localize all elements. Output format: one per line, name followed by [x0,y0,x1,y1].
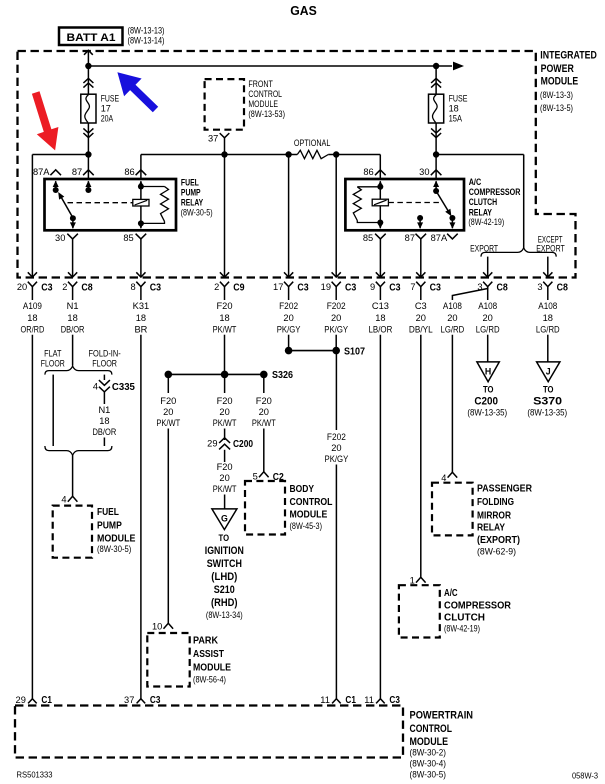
svg-text:(8W-30-4): (8W-30-4) [410,758,447,768]
wire S107 to PCM C1 with label [325,351,349,699]
svg-text:F20: F20 [160,396,176,406]
BATT A1 reference labels [128,26,165,46]
svg-text:(8W-13-35): (8W-13-35) [527,407,567,417]
coil K2 [372,199,388,225]
wire K31 to PCM C3 [140,335,142,699]
svg-text:20: 20 [163,407,173,417]
svg-text:18: 18 [449,103,459,113]
off-page reference G (to ignition switch) [212,509,237,530]
svg-text:(8W-13-13): (8W-13-13) [128,26,165,36]
pin 1 label A/C clutch [410,575,415,585]
pin 5 fork BCM [259,472,269,477]
svg-text:BATT A1: BATT A1 [67,32,117,44]
resistor R2 in K1 [141,187,169,224]
connector C8 pin 3 at IPM edge x=547.8 [537,272,568,293]
module U6 PASSENGER FOLDING MIRROR RELAY (dashed box) [432,483,473,536]
splice S107 [285,347,340,355]
svg-text:CLUTCH: CLUTCH [444,612,485,623]
svg-text:29: 29 [207,438,217,448]
svg-text:(8W-13-5): (8W-13-5) [540,103,573,113]
svg-text:F20: F20 [256,396,272,406]
svg-text:FLAT: FLAT [44,349,62,359]
svg-text:85: 85 [123,233,133,243]
wire A108 to off-page J [547,335,549,362]
wire K2 pin 87 to C3 [420,239,422,277]
svg-text:PK/GY: PK/GY [277,325,301,335]
svg-text:18: 18 [136,313,146,323]
svg-text:(8W-30-5): (8W-30-5) [181,208,213,218]
svg-text:20: 20 [331,313,341,323]
svg-text:(EXPORT): (EXPORT) [477,535,520,546]
connector C3 pin 37 at PCM [124,695,161,706]
svg-text:PK/WT: PK/WT [213,418,237,428]
resistor R1 OPTIONAL [297,150,328,158]
wire A108 to off-page H [487,335,489,362]
svg-text:C3: C3 [430,283,441,294]
wire A108 jog to mirror-relay column [441,287,488,335]
svg-text:TO: TO [219,532,230,543]
svg-text:PK/WT: PK/WT [213,484,237,494]
pin 85 fork K2 [375,234,386,239]
svg-text:F202: F202 [279,301,298,311]
svg-text:S370: S370 [533,396,562,408]
svg-text:CONTROL: CONTROL [410,723,453,735]
wire control rail (relay 86 pins / FCM / optional) [141,155,380,180]
svg-text:C200: C200 [474,396,498,408]
svg-text:(8W-42-19): (8W-42-19) [444,623,480,633]
svg-text:A109: A109 [23,301,42,311]
pin 86 internal stub K2 [377,181,383,200]
wire battery B+ into IPM [87,50,89,154]
svg-text:FOLD-IN-: FOLD-IN- [89,349,121,359]
wire C3 DB/YL to A/C compressor clutch [420,335,422,578]
footer page number 058W-3 [572,771,598,781]
svg-text:MODULE: MODULE [97,534,136,545]
svg-text:LG/RD: LG/RD [441,325,465,335]
svg-text:S210: S210 [214,584,235,596]
svg-text:MODULE: MODULE [193,662,231,673]
INTEGRATED POWER MODULE labels [540,50,597,113]
connector C2 label [273,472,284,483]
pin 86 connector chevron K2 [375,170,386,175]
svg-text:C3: C3 [345,283,356,294]
svg-text:COMPRESSOR: COMPRESSOR [444,600,511,611]
node junction control rail at FCM pin 37 [221,151,227,157]
coil link dashed K2 [388,202,441,204]
svg-text:20: 20 [331,443,341,453]
svg-text:A/C: A/C [444,588,458,599]
wire A108 J stub and label [536,287,560,335]
connector C1 pin 11 at PCM [320,695,356,706]
wire F202 right drop to C3 [335,155,337,278]
relay K1 name labels [181,178,213,218]
svg-text:20: 20 [283,313,293,323]
wire B+ bus [88,62,464,71]
wire A109 stub and label [21,287,45,335]
svg-text:4: 4 [441,473,446,483]
module U7 POWERTRAIN CONTROL MODULE (dashed box) [15,706,403,758]
svg-text:(8W-30-2): (8W-30-2) [410,747,447,757]
label FOLD-IN-FLOOR [89,349,121,369]
pin 87A label K2 [431,233,448,243]
svg-text:N1: N1 [98,405,110,415]
coil link dashed K1 [68,202,133,204]
pin 4 label mirror relay [441,473,446,483]
svg-text:FUSE: FUSE [101,94,119,104]
wire F202 right to splice S107 [335,335,337,351]
svg-text:DB/YL: DB/YL [409,325,433,335]
pin 10 fork park assist [164,623,174,628]
relay K2 A/C COMPRESSOR CLUTCH RELAY box [345,179,464,230]
svg-text:C3: C3 [389,283,400,294]
pin 86 label K1 [124,167,134,177]
svg-text:C8: C8 [557,283,568,294]
svg-text:C3: C3 [41,283,52,294]
splice S326 [165,371,268,379]
svg-text:(8W-13-34): (8W-13-34) [206,610,243,620]
svg-text:20A: 20A [101,114,114,124]
wire fuse 18 output to A/C relay pin 30 and export feed [436,155,524,249]
brace floor merge [45,446,112,455]
pin 4 label fuel pump module [61,494,66,504]
module U2 FRONT CONTROL MODULE (dashed box) [205,79,244,130]
wire fold-in-floor branch with N1 label [93,392,117,446]
svg-text:11: 11 [364,695,374,705]
svg-text:PASSENGER: PASSENGER [477,484,532,495]
wire A108 to passenger folding mirror relay [451,335,453,473]
svg-text:F202: F202 [327,432,346,442]
svg-text:INTEGRATED: INTEGRATED [540,50,597,62]
wire fuse 17 output to relay pin 87 and A109 branch [32,155,88,278]
connector C3 pin 20 at IPM edge x=32.4 [17,272,53,293]
pin 85 label K2 [363,233,373,243]
svg-text:(8W-42-19): (8W-42-19) [468,217,504,227]
svg-text:2: 2 [214,282,219,292]
svg-text:87A: 87A [431,233,448,243]
svg-text:8: 8 [131,282,136,292]
pin 4 fork fuel pump module [68,496,78,501]
svg-text:18: 18 [67,313,77,323]
connector C1 pin 29 at PCM [16,695,53,706]
svg-text:F202: F202 [327,301,346,311]
wire flat-floor branch [52,375,54,446]
svg-text:GAS: GAS [290,3,317,18]
wire C200 to G with label [213,450,237,509]
svg-text:A108: A108 [538,301,557,311]
wire F20 control drop to C9 [224,155,226,278]
label TO C200 [467,383,507,417]
svg-text:F20: F20 [217,462,233,472]
svg-text:FLOOR: FLOOR [92,359,117,369]
annotation blue arrow [117,72,158,112]
svg-text:DB/OR: DB/OR [93,427,117,437]
svg-text:11: 11 [320,695,330,705]
module outline U1 INTEGRATED POWER MODULE (dashed) [18,51,576,278]
wire F20 stub and label [213,287,237,335]
svg-text:F20: F20 [217,396,233,406]
wire F202 right stub and label [324,287,348,335]
BODY CONTROL MODULE labels [290,484,333,531]
wire to connector C200 [224,429,226,441]
wire N1 to floor split brace [72,335,74,366]
pin 37 label of U2 [208,133,218,143]
svg-text:FUEL: FUEL [97,507,119,518]
svg-text:OPTIONAL: OPTIONAL [294,138,331,148]
pin 1 fork A/C clutch [416,577,426,582]
wire F202 left to splice S107 [288,335,290,351]
svg-text:POWERTRAIN: POWERTRAIN [410,709,474,721]
svg-text:(8W-30-5): (8W-30-5) [410,769,447,779]
POWERTRAIN CONTROL MODULE labels [410,709,474,779]
connector C8 pin 2 at IPM edge x=72.6 [62,272,93,293]
pin 87A label K1 [33,167,50,177]
svg-text:19: 19 [321,282,331,292]
svg-text:37: 37 [208,133,218,143]
svg-text:(8W-62-9): (8W-62-9) [477,546,516,556]
svg-text:17: 17 [273,282,283,292]
svg-text:9: 9 [370,282,375,292]
FUEL PUMP MODULE labels [97,507,136,554]
pin 30 internal stub K2 [433,181,439,194]
annotation red arrow [32,91,59,150]
connector C335 pin 4 [93,380,135,393]
label S107 [344,347,365,358]
module U3 PARK ASSIST MODULE (dashed box) [147,633,189,687]
svg-text:4: 4 [61,494,66,504]
wire K1 pin 30 to C8 [72,239,74,277]
svg-text:4: 4 [93,381,98,391]
label EXPORT [470,243,498,253]
relay K1 FUEL PUMP RELAY box [45,179,177,230]
svg-text:37: 37 [124,695,134,705]
svg-text:(8W-45-3): (8W-45-3) [290,521,323,531]
label OPTIONAL [294,138,331,148]
label FLAT FLOOR [41,349,65,369]
svg-text:C8: C8 [81,283,92,294]
pin 87 label K2 [405,233,415,243]
svg-text:(8W-13-3): (8W-13-3) [540,90,573,100]
module U5 FUEL PUMP MODULE (dashed box) [53,506,92,558]
node junction control rail F202 right [333,151,339,157]
svg-text:18: 18 [375,313,385,323]
connector arrow at IPM top edge [84,50,93,55]
node junction fuse 17 output [85,151,91,157]
svg-text:FOLDING: FOLDING [477,497,514,508]
wire U2 pin 37 to control rail [224,138,226,155]
svg-text:30: 30 [419,167,429,177]
pin 30 internal stub K1 [70,218,76,229]
svg-text:POWER: POWER [541,63,574,75]
wire S326 left branch F20 label [156,374,180,428]
wire S326 right branch F20 label [252,374,276,428]
wire A109 to PCM C1 [31,335,33,699]
svg-text:LG/RD: LG/RD [476,325,500,335]
pin 10 label park assist [152,622,162,632]
wire fold-in-floor branch upper [103,375,105,380]
pin 85 label K1 [123,233,133,243]
svg-text:15A: 15A [449,114,463,124]
wire C3-DB/YL stub and label [409,287,433,335]
label EXCEPT EXPORT [536,234,565,253]
svg-text:PK/WT: PK/WT [156,418,180,428]
svg-text:7: 7 [410,282,415,292]
brace export split [481,248,556,257]
svg-text:RELAY: RELAY [477,523,505,534]
PASSENGER FOLDING MIRROR RELAY labels [477,484,532,557]
svg-text:18: 18 [99,416,109,426]
svg-text:(RHD): (RHD) [211,597,238,609]
pin 87 fork K2 [416,234,427,239]
component L1 A/C COMPRESSOR CLUTCH (dashed box) [399,585,440,637]
svg-text:DB/OR: DB/OR [61,325,85,335]
svg-text:FLOOR: FLOOR [41,359,65,369]
svg-text:87: 87 [72,167,82,177]
wire export branch to C8 pin 3 (export) [487,257,489,278]
wire C13 stub and label [369,287,393,335]
svg-text:S107: S107 [344,347,365,358]
svg-text:20: 20 [416,313,426,323]
label TO IGNITION SWITCH S210 [205,532,244,620]
svg-text:20: 20 [219,407,229,417]
svg-text:18: 18 [27,313,37,323]
pin 87A internal stub K2 [449,218,455,229]
svg-text:FUSE: FUSE [449,94,468,104]
svg-text:N1: N1 [67,301,79,311]
svg-text:3: 3 [537,282,542,292]
svg-text:CONTROL: CONTROL [290,497,333,508]
footer sheet number RS501333 [17,769,53,779]
pin 86 label K2 [363,167,373,177]
pin 85 fork K1 [136,234,147,239]
svg-text:29: 29 [16,695,26,705]
svg-text:BODY: BODY [290,484,315,495]
svg-text:TO: TO [543,383,554,394]
svg-text:PK/WT: PK/WT [213,325,237,335]
svg-text:MIRROR: MIRROR [477,511,511,522]
svg-text:OR/RD: OR/RD [21,325,45,335]
svg-text:PK/GY: PK/GY [325,454,349,464]
svg-text:PK/WT: PK/WT [252,418,276,428]
svg-text:F20: F20 [216,301,232,311]
pin 30 fork K1 [67,234,78,239]
fuse F18 [429,78,444,137]
connector C8 pin 3 at IPM edge x=487.7 [477,272,508,293]
wire fuse 18 feed [435,66,437,155]
svg-text:1: 1 [410,575,415,585]
svg-text:C3: C3 [415,301,427,311]
svg-text:G: G [221,513,228,523]
connector C200 pin 29 [207,438,253,450]
svg-text:MODULE: MODULE [541,76,579,88]
fuse F17 value labels [101,94,119,124]
fuse F17 [81,78,96,137]
svg-text:C13: C13 [372,301,389,311]
node B+ bus junction at fuse 18 [433,63,439,69]
svg-text:(8W-13-35): (8W-13-35) [467,407,507,417]
fuse F18 value labels [449,94,468,124]
svg-text:20: 20 [483,313,493,323]
off-page reference J (to S370) [537,362,560,382]
svg-text:C8: C8 [497,283,508,294]
svg-text:J: J [546,366,551,376]
label TO S370 [527,383,567,417]
wire merged N1 to fuel pump module [72,455,74,496]
svg-text:BR: BR [134,325,147,335]
svg-text:MODULE: MODULE [410,736,449,748]
svg-text:C3: C3 [150,283,161,294]
svg-text:C200: C200 [233,439,253,450]
svg-text:(LHD): (LHD) [211,571,237,583]
pin 30 label K2 [419,167,429,177]
svg-text:A108: A108 [443,301,462,311]
connector C3 pin 17 at IPM edge x=288.6 [273,272,309,293]
wire K1 pin 85 to C3 [140,239,142,277]
svg-text:20: 20 [447,313,457,323]
switch armature K1 (30 to 87A) [58,192,76,221]
pin 86 connector chevron K1 [136,170,147,175]
connector C3 pin 9 at IPM edge x=380.4 [370,272,401,293]
svg-text:87: 87 [405,233,415,243]
pin 4 fork mirror relay [448,472,458,477]
title GAS [290,3,317,18]
node junction control rail F202 left [285,151,291,157]
wire F20 to splice S326 [224,335,226,375]
resistor R3 in K2 [353,187,380,223]
pin 30 connector chevron K2 [431,170,442,175]
wire S326 left branch to park assist module [167,429,169,624]
module U4 BODY CONTROL MODULE (dashed box) [245,481,285,535]
wire K31 stub and label [133,287,150,335]
svg-text:86: 86 [363,167,373,177]
svg-text:K31: K31 [133,301,150,311]
pin 87 label K1 [72,167,82,177]
svg-text:10: 10 [152,622,162,632]
svg-text:C9: C9 [233,283,244,294]
svg-text:(8W-30-5): (8W-30-5) [97,544,131,554]
pin 87 connector chevron K1 [83,170,94,175]
svg-text:S326: S326 [272,370,293,381]
svg-text:20: 20 [259,407,269,417]
svg-text:SWITCH: SWITCH [207,558,242,570]
svg-text:17: 17 [101,103,111,113]
svg-text:TO: TO [483,383,494,394]
PARK ASSIST MODULE labels [193,635,231,684]
connector C3 pin 19 at IPM edge x=336.2 [321,272,357,293]
wire except-export branch to C8 pin 3 [547,257,549,278]
pin 5 label BCM [253,472,258,482]
svg-text:PARK: PARK [193,635,219,646]
connector C3 pin 11 at PCM [364,695,400,706]
svg-text:18: 18 [219,313,229,323]
node B+ bus junction at fuse 17 [85,63,91,69]
wire K2 pin 85 to C3 [379,239,381,277]
switch armature K2 (30 to 87A) [436,191,455,221]
pin 87A internal stub K1 [53,181,59,193]
label S326 [272,370,293,381]
pin 87A connector chevron K1 [50,170,61,175]
svg-text:CLUTCH: CLUTCH [469,197,498,208]
svg-text:2: 2 [62,282,67,292]
wire C13 to PCM C3 [379,335,381,699]
pin 37 connector fork of U2 [220,133,230,138]
svg-text:(8W-13-14): (8W-13-14) [128,36,165,46]
svg-text:PK/GY: PK/GY [324,325,348,335]
pin 87 internal stub K2 [417,215,423,229]
svg-text:86: 86 [124,167,134,177]
svg-text:MODULE: MODULE [290,510,328,521]
coil K1 [133,181,149,227]
svg-text:87A: 87A [33,167,50,177]
